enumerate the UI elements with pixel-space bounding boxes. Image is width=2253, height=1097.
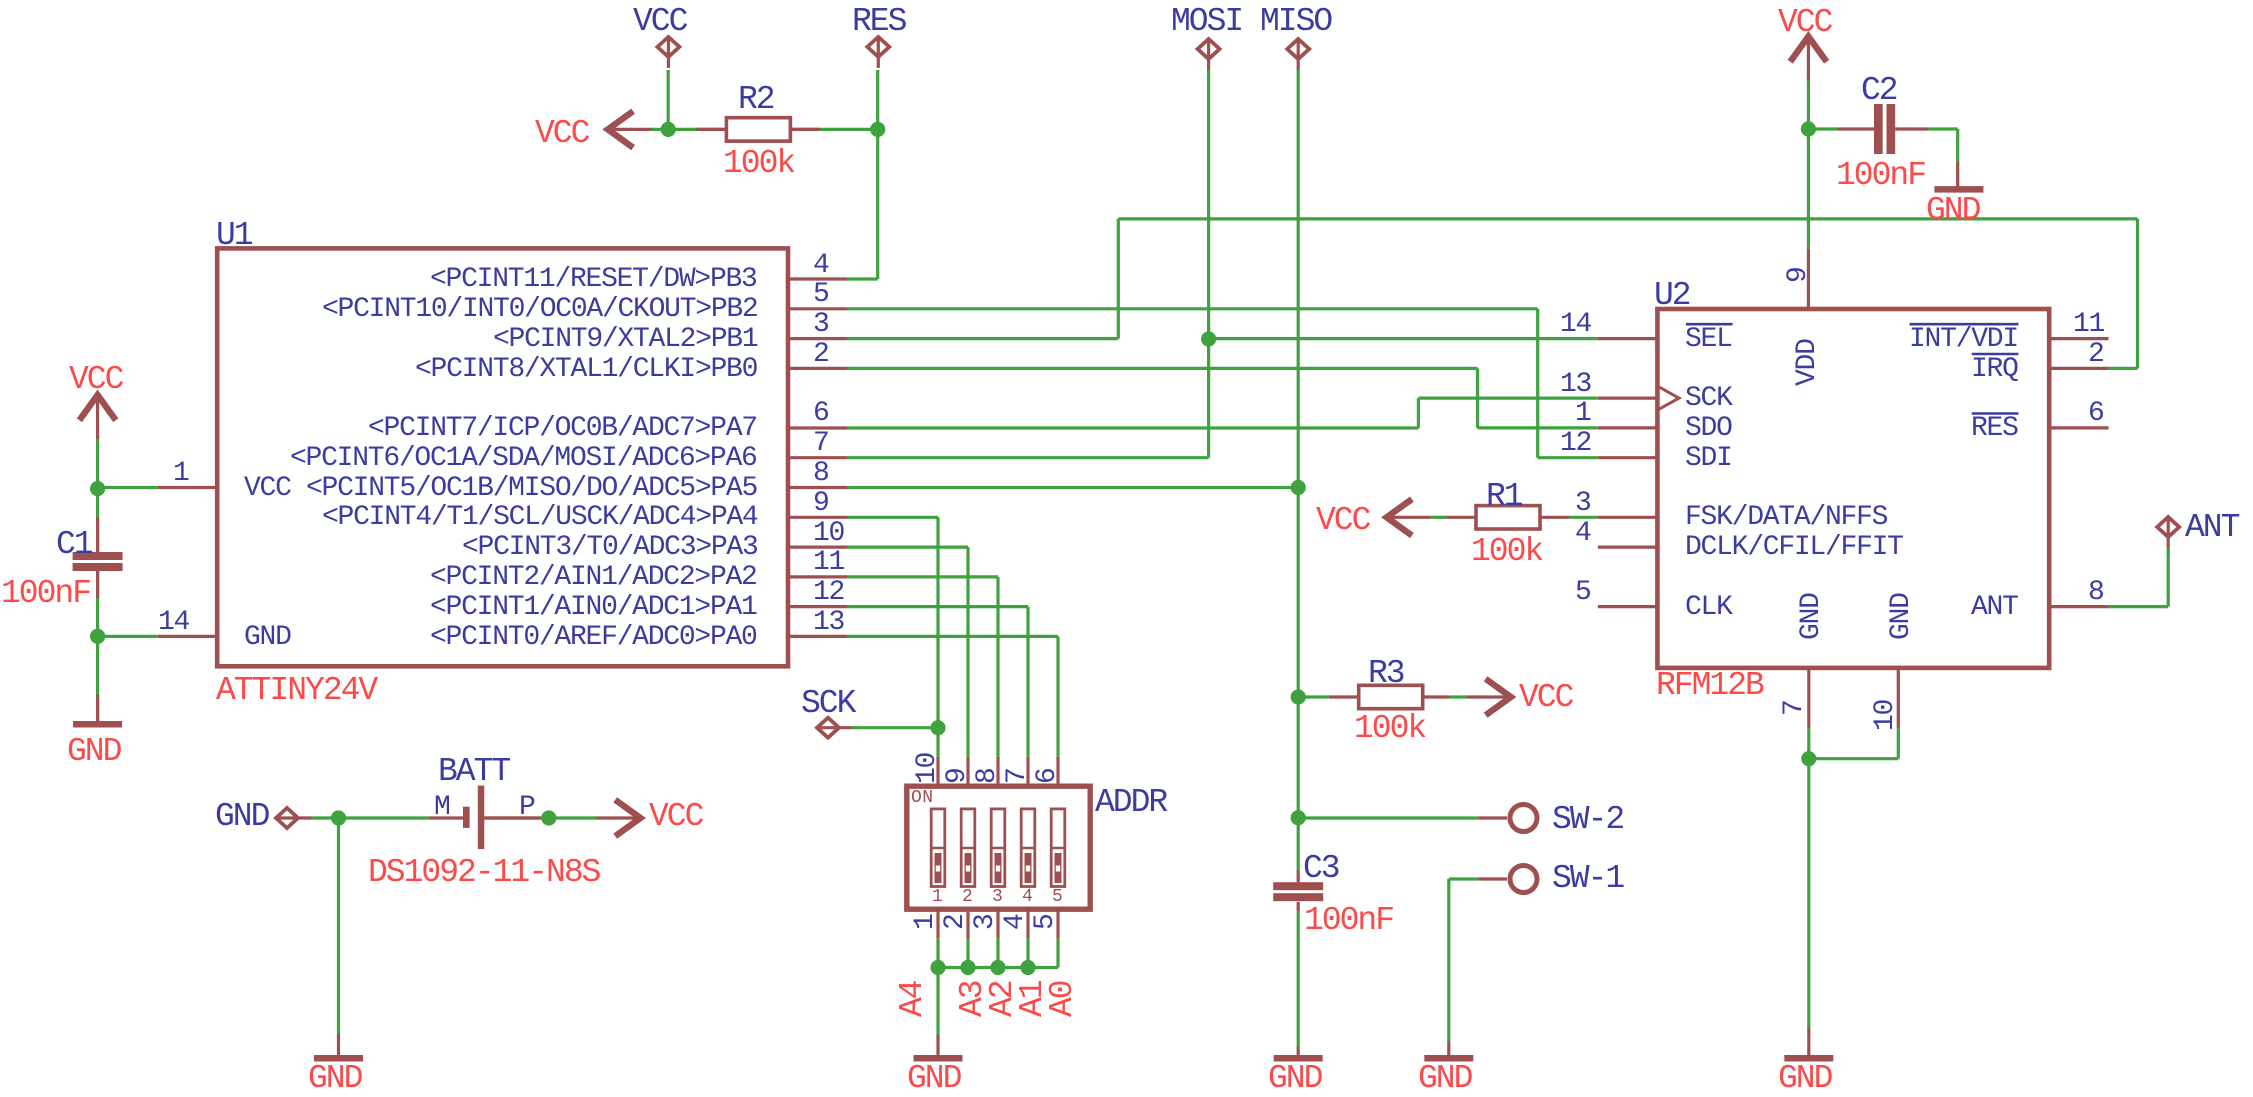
U2 pin 8 stub xyxy=(2049,605,2108,608)
supply pin VCC (top left) xyxy=(657,37,679,57)
U1 pin name (PCINT7/ICP/OC0B/ADC7)PA7 xyxy=(368,415,757,443)
U2 pin number 10 xyxy=(1872,700,1900,731)
battery BATT plates xyxy=(463,807,470,828)
dip pin number 4 xyxy=(1002,914,1030,930)
battery pin name P xyxy=(519,794,535,822)
wire PA0 to dip pin 6 xyxy=(1056,636,1059,756)
wire RES vertical xyxy=(876,70,879,279)
wire R2 to RES net xyxy=(790,128,877,131)
resistor R3 xyxy=(1359,685,1423,708)
label MOSI xyxy=(1171,5,1242,38)
wire C1 to pin14 junction xyxy=(96,571,99,637)
capacitor C1 xyxy=(73,552,123,560)
U2 pin 5 stub xyxy=(1598,605,1658,608)
value R2 100k xyxy=(723,147,794,180)
dip pin number 2 xyxy=(942,914,970,930)
U2 pin name DCLK/CFIL/FFIT xyxy=(1685,534,1903,562)
U2 pin number 5 xyxy=(1575,579,1591,607)
wire PA7 segment xyxy=(848,426,1419,429)
wire into SDI pin xyxy=(1538,456,1598,459)
U1 pin 11 stub xyxy=(788,575,848,578)
U2 pin name CLK xyxy=(1685,594,1732,622)
resistor R1 xyxy=(1476,506,1540,529)
dip-switch position label 2 xyxy=(962,888,973,906)
wire MISO vertical xyxy=(1297,70,1300,871)
U2 pin 12 stub xyxy=(1598,456,1658,459)
dip-switch actuator 5 xyxy=(1051,809,1065,887)
lead gnd lead dip xyxy=(936,1035,939,1055)
supply pin GND (battery) xyxy=(276,808,298,828)
wire VCC to C2 xyxy=(1808,127,1837,130)
lead GND lead C1 xyxy=(96,695,99,721)
supply pin MISO xyxy=(1287,39,1309,59)
junction R2/RES xyxy=(870,122,885,137)
U1 pin 12 stub xyxy=(788,605,848,608)
lead SW-2 lead xyxy=(1478,816,1507,819)
U1 pin name (PCINT10/INT0/OC0A/CKOUT)PB2 xyxy=(322,296,757,324)
capacitor C2 xyxy=(1874,104,1883,154)
wire battery P to VCC arrow xyxy=(541,816,597,819)
label SW-2 xyxy=(1552,803,1623,836)
label SW-1 xyxy=(1552,862,1623,895)
wire ANT riser xyxy=(2167,548,2170,607)
junction C1 top xyxy=(90,481,105,496)
U1 pin number 6 xyxy=(813,400,829,428)
wire PA3 to dip pin 9 xyxy=(966,547,969,757)
wire MISO net to R3 xyxy=(1298,695,1329,698)
GND value (SW) xyxy=(1418,1062,1471,1095)
ic U1 ATTINY24V body xyxy=(217,248,788,666)
wire VCC arrow to R1 xyxy=(1431,516,1447,519)
wire PB1 to IRQ top run xyxy=(1118,217,2137,220)
dip-switch S1 ADDR body xyxy=(907,786,1090,909)
wire PB0-SDO drop xyxy=(1476,368,1479,428)
supply pin ANT xyxy=(2157,517,2179,537)
U1 pin number 4 xyxy=(813,252,829,280)
wire PB3 to RES net xyxy=(848,277,878,280)
lead gnd lead SW xyxy=(1447,1041,1450,1055)
dip pin 2 stub xyxy=(966,909,969,939)
wire SW-1 to GND xyxy=(1447,879,1450,1041)
U2 pin name ANT xyxy=(1971,594,2018,622)
dip-switch actuator 1 xyxy=(931,809,945,887)
wire dip pin5 down xyxy=(1056,939,1059,968)
U2 pin number 7 xyxy=(1781,700,1809,716)
label R1 xyxy=(1486,480,1522,513)
VCC arrow symbol (C2) xyxy=(1790,37,1826,62)
junction dip A4 xyxy=(930,960,945,975)
GND value (C2) xyxy=(1926,194,1979,227)
U1 pin name (PCINT5/OC1B/MISO/DO/ADC5)PA5 xyxy=(306,475,757,503)
label VCC xyxy=(633,5,686,38)
U2 pin number 14 xyxy=(1560,311,1591,339)
wire SW-1 lead xyxy=(1449,877,1478,880)
U2 pin 11 stub xyxy=(2049,337,2108,340)
dip pin number 1 xyxy=(912,914,940,930)
junction VCC/R2 xyxy=(661,122,676,137)
lead gnd lead C3 xyxy=(1297,1047,1300,1055)
junction U2 GND xyxy=(1801,751,1816,766)
wire junction to C1 xyxy=(96,489,99,552)
U2 pin name SDI xyxy=(1685,445,1732,473)
U1 pin number 13 xyxy=(813,609,844,637)
wire SCK label to PA4 net xyxy=(852,726,938,729)
battery pin name M xyxy=(434,794,450,822)
U2 pin 1 stub xyxy=(1598,426,1658,429)
U2 pin name SEL xyxy=(1685,326,1732,354)
U1 pin 3 stub xyxy=(788,337,848,340)
lead gnd lead C2 xyxy=(1956,162,1959,187)
U2 pin number 6 xyxy=(2088,400,2104,428)
junction net/SW-2 xyxy=(1291,810,1306,825)
U1 pin number 2 xyxy=(813,341,829,369)
lead battery M lead xyxy=(429,816,463,819)
dip-switch actuator 3 xyxy=(991,809,1005,887)
U2 pin name GND (7) xyxy=(1798,593,1826,640)
switch SW-2 contact xyxy=(1510,805,1537,832)
GND value (dip) xyxy=(907,1062,960,1095)
U2 pin number 1 xyxy=(1575,400,1591,428)
GND value (U2) xyxy=(1778,1062,1831,1095)
dip pin 7 stub xyxy=(1026,757,1029,786)
U2 pin number 8 xyxy=(2088,579,2104,607)
label R3 xyxy=(1368,657,1404,690)
wire C1 to GND xyxy=(96,636,99,721)
lead R2 left lead xyxy=(697,128,727,131)
wire PB2 to SDI xyxy=(848,307,1538,310)
VCC value text (C2) xyxy=(1778,6,1831,39)
label U2 refdes xyxy=(1654,279,1690,312)
wire into IRQ pin xyxy=(2109,367,2138,370)
U2 pin number 3 xyxy=(1575,490,1591,518)
wire dip pin2 down xyxy=(966,939,969,968)
wire U2 GND join xyxy=(1809,757,1899,760)
junction battery VCC xyxy=(541,810,556,825)
wire PA7-SCK riser xyxy=(1417,398,1420,428)
value R3 100k xyxy=(1354,712,1425,745)
label C2 xyxy=(1861,74,1897,107)
value R1 100k xyxy=(1471,535,1542,568)
VCC value text (R2) xyxy=(535,117,588,150)
U1 pin name (PCINT4/T1/SCL/USCK/ADC4)PA4 xyxy=(322,504,757,532)
lead gnd lead U2 xyxy=(1807,1028,1810,1056)
dip pin number 6 xyxy=(1034,768,1062,784)
ground symbol (C3) xyxy=(1274,1055,1323,1062)
wire PA2 segment xyxy=(848,575,998,578)
U1 pin 1 stub xyxy=(158,486,218,489)
dip pin 3 stub xyxy=(996,909,999,939)
wire PA4 to dip pin 10 xyxy=(936,517,939,757)
U1 pin 8 stub xyxy=(788,486,848,489)
VCC arrow symbol (C1) xyxy=(79,395,115,420)
wire PB1 segment xyxy=(848,337,1119,340)
U2 pin name GND (10) xyxy=(1888,593,1916,640)
U1 pin number 8 xyxy=(813,460,829,488)
label U1 value ATTINY24V xyxy=(216,674,376,707)
U1 pin number 9 xyxy=(813,490,829,518)
wire R3 to VCC arrow xyxy=(1450,695,1467,698)
ground symbol (U2) xyxy=(1784,1055,1833,1062)
ground symbol (C1) xyxy=(73,721,122,728)
dip pin 6 stub xyxy=(1056,757,1059,786)
value C3 100nF xyxy=(1304,904,1393,937)
label ADDR xyxy=(1095,786,1166,819)
lead C3 bottom lead xyxy=(1297,902,1300,911)
junction C1 bottom xyxy=(90,629,105,644)
wire PA1 to dip pin 7 xyxy=(1026,607,1029,757)
lead battery P lead maroon xyxy=(484,816,541,819)
U1 pin number 14 xyxy=(158,609,189,637)
VCC value text (C1) xyxy=(69,363,122,396)
wire dip pin3 down xyxy=(996,939,999,968)
wire PA3 segment xyxy=(848,545,968,548)
U1 pin 6 stub xyxy=(788,426,848,429)
U2 pin 10 stub xyxy=(1897,668,1900,728)
lead R1 left lead xyxy=(1446,516,1476,519)
dip pin number 9 xyxy=(944,768,972,784)
label C1 xyxy=(56,528,92,561)
wire C2 to GND drop xyxy=(1956,129,1959,162)
wire dip common row xyxy=(938,966,1058,969)
dip pin number 10 xyxy=(914,753,942,784)
U1 pin name (PCINT9/XTAL2)PB1 xyxy=(493,326,757,354)
lead C1 top lead xyxy=(96,517,99,552)
lead gnd lead batt xyxy=(337,1034,340,1055)
VCC arrow symbol (R2) xyxy=(608,111,633,147)
label BATT xyxy=(438,755,509,788)
wire dip pin1 to gnd xyxy=(936,939,939,1035)
U2 pin 7 stub xyxy=(1807,668,1810,728)
VCC value text (battery) xyxy=(649,800,702,833)
U2 pin 2 stub xyxy=(2049,367,2108,370)
dip pin number 8 xyxy=(974,768,1002,784)
U1 pin name GND xyxy=(244,624,291,652)
net label A2 xyxy=(986,981,1019,1017)
wire battery gnd drop xyxy=(337,818,340,1034)
junction MISO/R3 xyxy=(1291,689,1306,704)
VCC arrow symbol (battery) xyxy=(615,800,640,836)
wire U2 GND to GND symbol xyxy=(1807,728,1810,1027)
dip-switch actuator 2 xyxy=(961,809,975,887)
value DS1092-11-N8S xyxy=(368,856,599,889)
wire PA1 segment xyxy=(848,605,1028,608)
wire PB2-SDI vertical xyxy=(1536,309,1539,458)
U2 pin number 13 xyxy=(1560,371,1591,399)
U1 pin number 3 xyxy=(813,311,829,339)
junction MISO/PA5 xyxy=(1291,480,1306,495)
label SCK xyxy=(801,687,854,720)
wire into U1 pin 14 xyxy=(98,635,158,638)
switch SW-1 contact xyxy=(1510,866,1537,893)
label GND battery xyxy=(215,800,268,833)
U2 pin name INT/VDI xyxy=(1909,326,2018,354)
dip pin 1 stub xyxy=(936,909,939,939)
U1 pin name (PCINT1/AIN0/ADC1)PA1 xyxy=(430,594,757,622)
label R2 xyxy=(738,83,774,116)
junction dip A1 xyxy=(1020,960,1035,975)
lead C2 left lead xyxy=(1838,127,1875,130)
dip-switch ON marking xyxy=(911,789,934,807)
lead C3 top lead xyxy=(1297,871,1300,883)
ground symbol (battery) xyxy=(314,1055,363,1062)
wire pin10 down xyxy=(1897,728,1900,758)
wire PA0 segment xyxy=(848,635,1058,638)
U2 pin number 12 xyxy=(1560,430,1591,458)
dip pin 10 stub xyxy=(936,757,939,786)
VCC value text (R1) xyxy=(1316,504,1369,537)
U2 pin number 11 xyxy=(2073,311,2104,339)
dip-switch position label 3 xyxy=(992,888,1003,906)
ground symbol (SW) xyxy=(1424,1055,1473,1062)
label C3 xyxy=(1303,852,1339,885)
dip pin 4 stub xyxy=(1026,909,1029,939)
U1 pin 9 stub xyxy=(788,516,848,519)
wire GND diamond to battery M xyxy=(310,816,429,819)
supply pin RES xyxy=(867,37,889,57)
U2 pin number 2 xyxy=(2088,341,2104,369)
ic U2 RFM12B body xyxy=(1657,309,2049,668)
U2 pin number 4 xyxy=(1575,520,1591,548)
wire into U1 pin 1 xyxy=(98,486,158,489)
lead R2 right lead xyxy=(790,128,820,131)
label ANT xyxy=(2185,511,2238,544)
U1 pin 13 stub xyxy=(788,635,848,638)
wire battery P lead xyxy=(484,816,541,819)
label U2 value RFM12B xyxy=(1656,669,1763,702)
net label A1 xyxy=(1016,981,1049,1017)
U2 pin name VDD xyxy=(1794,339,1822,386)
ground symbol (C2) xyxy=(1934,186,1983,193)
U1 pin 5 stub xyxy=(788,307,848,310)
value C1 100nF xyxy=(1,577,90,610)
wire PA2 to dip pin 8 xyxy=(996,577,999,757)
net label A3 xyxy=(956,981,989,1017)
junction dip A3 xyxy=(960,960,975,975)
dip pin number 3 xyxy=(972,914,1000,930)
junction dip A2 xyxy=(990,960,1005,975)
wire MOSI vertical xyxy=(1207,70,1210,458)
GND value (C3) xyxy=(1268,1062,1321,1095)
wire VCC arrow to C1 junction xyxy=(96,436,99,489)
U1 pin 4 stub xyxy=(788,277,848,280)
dip pin 5 stub xyxy=(1056,909,1059,939)
wire ANT pin out xyxy=(2109,605,2169,608)
junction MOSI/SEL xyxy=(1201,331,1216,346)
U2 SCK clock-input triangle xyxy=(1657,386,1679,410)
U2 pin 14 stub xyxy=(1598,337,1658,340)
wire PB1 riser xyxy=(1117,219,1120,339)
VCC value text (R3) xyxy=(1519,681,1572,714)
U1 pin number 10 xyxy=(813,520,844,548)
wire PA6 segment (MOSI) xyxy=(848,456,1209,459)
U1 pin 10 stub xyxy=(788,545,848,548)
lead SW-1 lead xyxy=(1478,877,1507,880)
junction battery GND xyxy=(331,810,346,825)
capacitor C3 xyxy=(1273,882,1323,890)
net label A4 xyxy=(896,981,929,1017)
U2 pin 13 stub xyxy=(1598,397,1658,400)
wire into SCK pin xyxy=(1418,397,1597,400)
ground symbol (dip) xyxy=(914,1055,963,1062)
net label A0 xyxy=(1046,981,1079,1017)
dip pin number 7 xyxy=(1004,768,1032,784)
wire VCC diamond drop xyxy=(667,70,670,129)
U1 pin name (PCINT11/RESET/DW)PB3 xyxy=(430,266,757,294)
U1 pin number 11 xyxy=(813,549,844,577)
VCC arrow symbol (R3) xyxy=(1486,679,1511,715)
dip-switch actuator 4 xyxy=(1021,809,1035,887)
wire C3 to GND xyxy=(1297,911,1300,1047)
lead C1 bottom lead xyxy=(96,571,99,599)
U1 pin number 7 xyxy=(813,430,829,458)
supply pin SCK xyxy=(817,718,839,738)
dip pin 9 stub xyxy=(966,757,969,786)
U2 pin name FSK/DATA/NFFS xyxy=(1685,504,1887,532)
U1 pin name (PCINT3/T0/ADC3)PA3 xyxy=(462,534,758,562)
GND value (C1) xyxy=(67,735,120,768)
label U1 refdes xyxy=(216,219,252,252)
lead R3 left lead xyxy=(1329,695,1359,698)
wire C2 right lead xyxy=(1928,127,1958,130)
U1 pin name (PCINT2/AIN1/ADC2)PA2 xyxy=(430,564,757,592)
lead C2 right lead xyxy=(1895,127,1928,130)
wire PB0 segment xyxy=(848,367,1478,370)
wire dip pin4 down xyxy=(1026,939,1029,968)
U2 pin 9 stub xyxy=(1807,248,1810,309)
dip-switch position label 1 xyxy=(932,888,943,906)
label RES xyxy=(852,5,905,38)
U2 pin 3 stub xyxy=(1598,516,1658,519)
U2 pin 4 stub xyxy=(1598,545,1658,548)
dip-switch position label 4 xyxy=(1022,888,1033,906)
U2 pin number 9 xyxy=(1785,267,1813,283)
wire R1 to FSK pin xyxy=(1570,516,1598,519)
U2 pin name SCK xyxy=(1685,385,1732,413)
dip pin 8 stub xyxy=(996,757,999,786)
wire PA5 segment (MISO) xyxy=(848,486,1299,489)
U1 pin number 12 xyxy=(813,579,844,607)
wire into SDO pin xyxy=(1478,426,1598,429)
U1 pin number 1 xyxy=(173,460,189,488)
supply pin MOSI xyxy=(1198,39,1220,59)
junction SCK/PA4 xyxy=(930,720,945,735)
U2 pin name RES xyxy=(1971,415,2018,443)
U1 pin 14 stub xyxy=(158,635,218,638)
wire VCC to R2 xyxy=(650,128,726,131)
U1 pin number 5 xyxy=(813,281,829,309)
wire MOSI junction to SEL xyxy=(1209,337,1598,340)
U1 pin name VCC xyxy=(244,475,291,503)
VCC arrow symbol (R1) xyxy=(1387,499,1412,535)
wire PA4 segment xyxy=(848,516,938,519)
U2 pin 6 stub xyxy=(2049,426,2108,429)
wire net to SW-2 xyxy=(1298,816,1478,819)
GND value (battery) xyxy=(308,1062,361,1095)
value C2 100nF xyxy=(1836,159,1925,192)
U2 pin name SDO xyxy=(1685,415,1732,443)
U2 pin name IRQ xyxy=(1971,356,2018,384)
wire IRQ drop xyxy=(2136,219,2139,369)
junction VCC/C2 xyxy=(1801,121,1816,136)
resistor R2 xyxy=(726,118,790,141)
dip-switch position label 5 xyxy=(1052,888,1063,906)
label MISO xyxy=(1260,5,1331,38)
U1 pin name (PCINT8/XTAL1/CLKI)PB0 xyxy=(415,356,757,384)
lead R1 right lead xyxy=(1540,516,1570,519)
U1 pin name (PCINT6/OC1A/SDA/MOSI/ADC6)PA6 xyxy=(290,445,757,473)
wire VCC to VDD pin 9 xyxy=(1807,78,1810,248)
dip pin number 5 xyxy=(1032,914,1060,930)
